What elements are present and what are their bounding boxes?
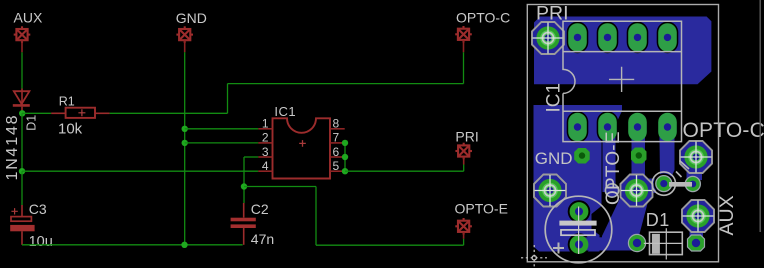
- D1 silkscreen body: [650, 232, 683, 254]
- clearance DIP bottom pad 2: [597, 111, 619, 143]
- pad GND (board): [534, 175, 566, 207]
- pin stub of pad OPTO-C: [463, 40, 465, 52]
- pad PRI (board): [532, 22, 564, 54]
- trace DIP pad b4 to R1 left pad: [660, 130, 675, 178]
- clearance around C3 pad 1: [568, 200, 591, 223]
- trace C3 plus pad to D1 left pad: [584, 237, 632, 250]
- copper pour top (bottom layer polygon): [534, 17, 711, 85]
- pad OPTO-C: [455, 26, 472, 43]
- C3 silkscreen bar 1: [559, 221, 596, 226]
- wire corner up: [227, 84, 229, 114]
- svg-text:10u: 10u: [29, 234, 53, 250]
- svg-text:GND: GND: [176, 10, 207, 26]
- window edge line (right): [759, 0, 761, 232]
- svg-text:5: 5: [333, 159, 340, 173]
- svg-text:C2: C2: [251, 201, 269, 217]
- D1 right pad (board): [688, 235, 705, 251]
- svg-text:OPTO-C: OPTO-C: [456, 10, 510, 26]
- op-amp / optocoupler IC1 body: [273, 118, 331, 178]
- clearance around R1 left pad: [654, 173, 674, 193]
- pad GND: [176, 26, 193, 43]
- IC1 pin 3 stub: [258, 156, 272, 158]
- wire GND pad down: [184, 52, 186, 245]
- wire OPTO-E branch horizontal from C2 junction: [244, 186, 316, 188]
- svg-text:C3: C3: [29, 201, 47, 217]
- pad OPTO-C (board): [680, 141, 712, 173]
- diode D1: [13, 89, 30, 111]
- node: junction GND / pin1 wire: [182, 126, 188, 132]
- svg-text:D1: D1: [25, 115, 39, 131]
- wire GND to IC pin 2: [185, 142, 259, 144]
- pad AUX (board): [682, 200, 714, 232]
- svg-text:GND: GND: [535, 149, 573, 168]
- DIP bottom pad 1: [568, 113, 587, 141]
- via ring on b2 trace: [605, 184, 618, 197]
- IC1 pin 6 stub: [330, 156, 345, 158]
- C3 silkscreen circle: [545, 196, 612, 263]
- clearance DIP top pad 3: [627, 22, 649, 54]
- IC1 silkscreen box with notch: [563, 21, 682, 141]
- svg-text:10k: 10k: [58, 120, 83, 137]
- pad OPTO-E (board): [621, 175, 653, 207]
- svg-text:4: 4: [262, 159, 269, 173]
- wire across to OPTO-C column: [228, 83, 464, 85]
- clearance DIP top pad 4: [657, 22, 679, 54]
- node: junction C2 top / OPTO-E branch: [241, 183, 247, 189]
- svg-text:R1: R1: [59, 95, 75, 109]
- wire OPTO-E branch bottom horizontal: [316, 244, 464, 246]
- wire up to OPTO-E pad: [463, 239, 465, 245]
- node: junction pin 7: [342, 140, 348, 146]
- svg-text:1N4148: 1N4148: [4, 114, 21, 181]
- IC1 pin 1 stub: [258, 128, 272, 130]
- svg-text:PRI: PRI: [536, 2, 569, 24]
- R1 silkscreen bar: [669, 182, 692, 187]
- svg-text:3: 3: [262, 145, 269, 159]
- node: junction left rail / pin4 wire / C3: [19, 168, 25, 174]
- node: junction pin 5: [342, 168, 348, 174]
- label R1 (board): [676, 161, 689, 178]
- C3 plus mark (board): [553, 243, 564, 254]
- IC1 pin 5 stub: [330, 170, 345, 172]
- DIP top pad 1: [568, 23, 587, 51]
- clearance DIP top pad 1: [567, 22, 589, 54]
- DIP top pad 2: [598, 23, 617, 51]
- C3 origin line through plus pad: [578, 207, 580, 255]
- node: junction bottom rail / GND vertical: [181, 242, 187, 248]
- DIP top pad 4: [658, 23, 677, 51]
- IC1 origin cross (board): [609, 67, 634, 92]
- C3 silkscreen bar 2: [561, 230, 595, 235]
- svg-text:AUX: AUX: [716, 195, 738, 235]
- trace DIP pad b2 down to via: [603, 130, 616, 192]
- wire AUX pad to D1 anode: [21, 52, 23, 88]
- trace AUX pad to D1 right pad: [690, 221, 704, 238]
- svg-text:D1: D1: [646, 210, 670, 230]
- node: junction pin 6: [342, 154, 348, 160]
- R1 right pad (board): [685, 176, 700, 191]
- IC1 pin 8 stub: [330, 128, 345, 130]
- wire joining pins 7-6-5: [344, 143, 346, 171]
- IC1 pin 4 stub: [258, 170, 272, 172]
- capacitor C3 (polarized): [10, 205, 34, 245]
- svg-text:OPTO-E: OPTO-E: [455, 200, 508, 216]
- svg-text:2: 2: [262, 131, 269, 145]
- wire GND bottom rail: [22, 244, 243, 246]
- wire pin5 to PRI pad: [345, 170, 464, 172]
- wire GND to IC pin 1: [185, 128, 259, 130]
- via pad near GND label (582,155.5): [574, 148, 590, 164]
- svg-text:IC1: IC1: [274, 104, 296, 119]
- copper pour bottom-left polygon: [534, 105, 623, 252]
- R1 left pad (board): [656, 176, 672, 192]
- pin stub of pad OPTO-E: [463, 232, 465, 239]
- DIP bottom pad 2: [598, 113, 617, 141]
- R1 silkscreen circle: [652, 172, 675, 195]
- pad PRI: [455, 143, 472, 160]
- D1 origin cross: [644, 228, 683, 259]
- trace OPTO-E pad to R1 left pad: [643, 179, 656, 194]
- pin stub of pad PRI: [463, 157, 465, 165]
- svg-text:6: 6: [333, 145, 340, 159]
- svg-text:1: 1: [262, 117, 269, 131]
- wire OPTO-E branch vertical: [315, 187, 317, 246]
- DIP top pad 3: [628, 23, 647, 51]
- trace DIP pad b3 to via: [632, 130, 646, 180]
- pin stub of pad GND: [184, 41, 186, 53]
- wire AUX node down left rail: [21, 113, 23, 171]
- svg-text:PRI: PRI: [455, 129, 478, 145]
- node: junction GND / pin2 wire: [182, 140, 188, 146]
- D1 cathode band: [652, 234, 660, 254]
- C3 pad plus: [570, 235, 589, 254]
- svg-text:AUX: AUX: [14, 10, 43, 26]
- IC1 pin 2 stub: [258, 142, 272, 144]
- svg-text:47n: 47n: [251, 231, 274, 247]
- clearance DIP top pad 2: [597, 22, 619, 54]
- svg-text:8: 8: [333, 117, 340, 131]
- pin stub of pad AUX: [21, 41, 23, 53]
- IC1 pin 7 stub: [330, 142, 345, 144]
- svg-text:OPTO-C: OPTO-C: [683, 119, 764, 142]
- trace R1 right pad to OPTO-C pad: [687, 164, 703, 180]
- wire R1 right to corner: [110, 112, 228, 114]
- clearance DIP bottom pad 1: [567, 111, 589, 143]
- wire C2 column down: [243, 157, 245, 203]
- wire C3 top lead: [21, 171, 23, 205]
- svg-text:7: 7: [333, 131, 340, 145]
- clearance around C3 pad 2: [568, 233, 591, 256]
- wire D1 cathode to R1 left: [22, 112, 51, 114]
- wire up to OPTO-C pad: [463, 52, 465, 83]
- capacitor C2: [231, 203, 256, 245]
- pad OPTO-E: [455, 218, 472, 235]
- wire IC pin 3 to C2 column: [244, 156, 258, 158]
- DIP bottom pad 4: [658, 113, 677, 141]
- origin crosshair (dashed): [521, 245, 547, 268]
- wire up to PRI pad: [463, 165, 465, 172]
- pad AUX: [14, 26, 31, 43]
- node: junction D1 cathode / R1 / pin4 branch: [19, 110, 25, 116]
- svg-text:IC1: IC1: [544, 83, 565, 113]
- resistor R1: [51, 108, 109, 118]
- via pad near DIP pin (637,154): [631, 148, 647, 164]
- board outline: [527, 5, 718, 262]
- trace OPTO-E pad diagonal down to D1/C3 net: [602, 194, 650, 244]
- D1 left pad (board): [628, 234, 645, 251]
- svg-text:OPTO-E: OPTO-E: [603, 131, 624, 205]
- DIP bottom pad 3: [628, 113, 647, 141]
- C3 pad minus: [570, 202, 589, 221]
- wire junction to IC pin 4: [22, 170, 258, 172]
